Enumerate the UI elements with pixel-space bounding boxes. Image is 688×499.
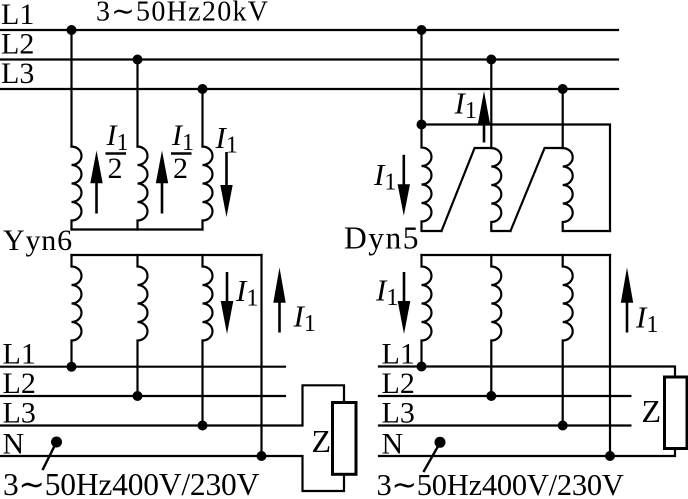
wire L2 top bus bbox=[0, 58, 618, 60]
node L1-T2A junction bbox=[417, 25, 427, 35]
wire L1 bottom right bbox=[379, 367, 675, 378]
arrow I1/2 phase B up bbox=[156, 151, 168, 214]
arrow I1 phase C down bbox=[220, 152, 232, 217]
svg-text:N: N bbox=[382, 427, 404, 460]
node L3-T1C junction bbox=[198, 84, 208, 94]
winding T2 primary C bbox=[563, 148, 610, 231]
arrow T1 secondary up bbox=[273, 268, 285, 333]
node T2 secondary L3 junction bbox=[558, 421, 568, 431]
wire T1 star point bus bbox=[72, 228, 203, 230]
arrow T2 secondary down bbox=[398, 272, 411, 334]
svg-text:L2: L2 bbox=[1, 28, 34, 61]
wire T2 primary phase C drop bbox=[562, 89, 564, 148]
wire T2 delta slant A-B bbox=[442, 148, 492, 231]
arrow T2 primary down bbox=[398, 155, 410, 216]
winding T2 primary B bbox=[491, 148, 510, 231]
leader line right N label bbox=[424, 443, 440, 471]
node right N leader dot bbox=[435, 437, 446, 448]
arrow T2 delta up bbox=[478, 91, 490, 143]
svg-text:L1: L1 bbox=[382, 338, 415, 371]
node T2 secondary L2 junction bbox=[486, 391, 496, 401]
svg-text:L1: L1 bbox=[3, 338, 36, 371]
node L3-T2C junction bbox=[558, 84, 568, 94]
wire L1 bottom left bbox=[0, 366, 285, 368]
svg-text:Z: Z bbox=[642, 393, 662, 429]
svg-text:2: 2 bbox=[108, 152, 123, 185]
svg-text:L3: L3 bbox=[382, 397, 415, 430]
wire L3 bottom left bbox=[0, 385, 344, 425]
svg-text:L2: L2 bbox=[382, 367, 415, 400]
svg-text:2: 2 bbox=[173, 152, 188, 185]
wire T2 delta slant B-C bbox=[511, 148, 563, 231]
wire T2 secondary top bus bbox=[422, 254, 611, 256]
winding T1 primary B bbox=[138, 147, 148, 230]
wire T2 primary phase A drop bbox=[420, 30, 422, 125]
svg-text:N: N bbox=[3, 427, 25, 460]
wire T2 secondary neutral drop bbox=[609, 255, 611, 456]
label I1/2 fraction A bbox=[106, 119, 129, 185]
arrow T2 secondary up bbox=[621, 268, 633, 333]
wire L3 top bus bbox=[0, 88, 618, 90]
node T1 secondary L2 junction bbox=[133, 391, 143, 401]
winding T2 secondary A bbox=[422, 255, 432, 367]
winding T1 secondary A bbox=[72, 255, 82, 367]
winding T2 secondary C bbox=[563, 255, 573, 426]
node L1-T1A junction bbox=[67, 25, 77, 35]
leader line left N label bbox=[43, 442, 57, 469]
svg-text:3∼50Hz20kV: 3∼50Hz20kV bbox=[96, 0, 269, 28]
node left N leader dot bbox=[51, 437, 62, 448]
svg-text:Yyn6: Yyn6 bbox=[3, 224, 73, 257]
load Z2 box bbox=[665, 377, 688, 449]
winding T2 secondary B bbox=[491, 255, 501, 396]
svg-text:3∼50Hz400V/230V: 3∼50Hz400V/230V bbox=[377, 468, 624, 499]
node T2 neutral junction bbox=[605, 451, 615, 461]
wire L2 bottom left bbox=[0, 395, 285, 397]
svg-text:3∼50Hz400V/230V: 3∼50Hz400V/230V bbox=[3, 467, 260, 499]
svg-text:Dyn5: Dyn5 bbox=[344, 221, 420, 256]
arrow T1 secondary down bbox=[221, 272, 234, 334]
svg-text:L3: L3 bbox=[1, 57, 34, 90]
wire N bottom left bbox=[0, 456, 344, 491]
winding T1 secondary C bbox=[203, 255, 213, 426]
node T1 neutral junction bbox=[257, 451, 267, 461]
node L2-T1B junction bbox=[133, 55, 143, 65]
svg-text:L1: L1 bbox=[1, 0, 34, 31]
node L2-T2B junction bbox=[486, 55, 496, 65]
wire L1 top bus bbox=[0, 29, 618, 31]
winding T1 primary A bbox=[72, 147, 82, 230]
wire T1 primary phase C drop bbox=[201, 89, 203, 147]
winding T2 primary A bbox=[422, 125, 442, 232]
wire L3 bottom right bbox=[379, 424, 630, 426]
wire T2 primary phase B drop bbox=[490, 60, 492, 149]
wire N bottom right bbox=[379, 449, 675, 457]
wire T1 primary phase A drop bbox=[70, 30, 72, 147]
svg-text:L3: L3 bbox=[3, 397, 36, 430]
arrow I1/2 phase A up bbox=[90, 151, 102, 214]
wire T1 secondary neutral drop bbox=[260, 255, 262, 456]
load Z1 box bbox=[333, 403, 357, 475]
wire T1 primary phase B drop bbox=[136, 60, 138, 147]
wire T2 delta top bus bbox=[422, 125, 611, 232]
wire T1 secondary top bus bbox=[72, 254, 262, 256]
svg-text:Z: Z bbox=[312, 423, 332, 459]
node T1 secondary L3 junction bbox=[198, 421, 208, 431]
node T2 secondary L1 junction bbox=[417, 362, 427, 372]
label I1/2 fraction B bbox=[171, 119, 194, 185]
svg-text:L2: L2 bbox=[3, 367, 36, 400]
wire L2 bottom right bbox=[379, 395, 630, 397]
winding T1 secondary B bbox=[138, 255, 148, 396]
node T2 delta corner junction bbox=[417, 120, 427, 130]
node T1 secondary L1 junction bbox=[67, 362, 77, 372]
winding T1 primary C bbox=[203, 147, 213, 230]
